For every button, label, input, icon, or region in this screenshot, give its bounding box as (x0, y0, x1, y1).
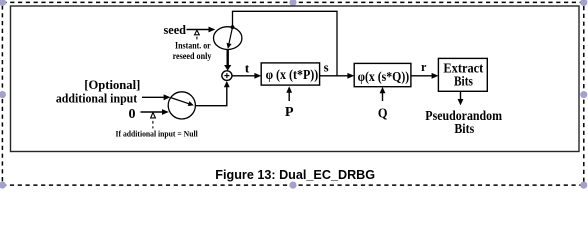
selection handle left-middle (0, 91, 6, 98)
svg-text:0: 0 (129, 107, 136, 122)
svg-text:r: r (421, 59, 427, 74)
selection handle top-middle (289, 0, 296, 6)
svg-text:P: P (285, 105, 294, 120)
svg-text:Q: Q (378, 107, 388, 122)
switch circle additional input (168, 92, 195, 119)
control stem dash (196, 37, 198, 40)
arrowhead seed into switch (209, 27, 216, 33)
feedback wire s to switch (233, 11, 338, 76)
junction dot feedback at switch top (231, 25, 235, 29)
svg-text:Instant. or: Instant. or (175, 41, 211, 51)
figure frame (11, 6, 580, 152)
adder (222, 71, 232, 81)
box U2 phi(x(s*Q)) (354, 63, 411, 86)
arrowhead into adder top (224, 65, 231, 71)
svg-text:s: s (324, 59, 329, 74)
selection handle top-right (580, 0, 587, 6)
svg-text:additional input: additional input (56, 90, 138, 105)
selection handle bottom-middle (289, 182, 296, 189)
arrowhead into box1 (254, 73, 261, 79)
wire adder to box1 (232, 75, 255, 77)
arrowhead into box2 (347, 73, 354, 79)
switch lever seed switch (229, 27, 233, 44)
selection handle top-left (0, 0, 6, 6)
selection handle bottom-left (0, 182, 6, 189)
wire r box2 to extract (411, 75, 432, 77)
selection handle bottom-right (580, 182, 587, 189)
switch circle seed/state (214, 27, 242, 50)
switch lever additional input (171, 98, 190, 104)
svg-text:If additional input = Null: If additional input = Null (116, 130, 199, 139)
output arrow from extract bits (460, 91, 462, 100)
svg-text:seed: seed (164, 22, 187, 37)
control triangle if-null (151, 113, 156, 118)
wire 0 to switch2 (141, 111, 163, 113)
wire additional input to switch2 (142, 96, 164, 98)
svg-text:reseed only: reseed only (173, 51, 212, 61)
control triangle instantiate/reseed (195, 30, 200, 35)
wire Q into box2 (382, 91, 384, 101)
svg-text:Bits: Bits (454, 122, 474, 137)
svg-text:φ (x (t*P)): φ (x (t*P)) (266, 68, 319, 83)
wire switch to adder (bold) (226, 49, 228, 66)
svg-text:φ(x (s*Q)): φ(x (s*Q)) (358, 70, 410, 85)
box U1 phi(x(t*P)) (261, 63, 319, 85)
selection dashed border (2, 2, 583, 185)
control stem dashes (152, 121, 154, 124)
svg-text:Bits: Bits (454, 75, 473, 90)
svg-text:Figure 13: Dual_EC_DRBG: Figure 13: Dual_EC_DRBG (215, 167, 375, 182)
selection handle right-middle (580, 91, 587, 98)
wire s box1 to box2 (320, 75, 348, 77)
arrowhead into extract box (432, 73, 439, 79)
wire switch2 to adder (195, 86, 226, 106)
wire seed to switch (187, 29, 209, 31)
wire P into box1 (288, 91, 290, 102)
box extract bits (438, 58, 487, 91)
